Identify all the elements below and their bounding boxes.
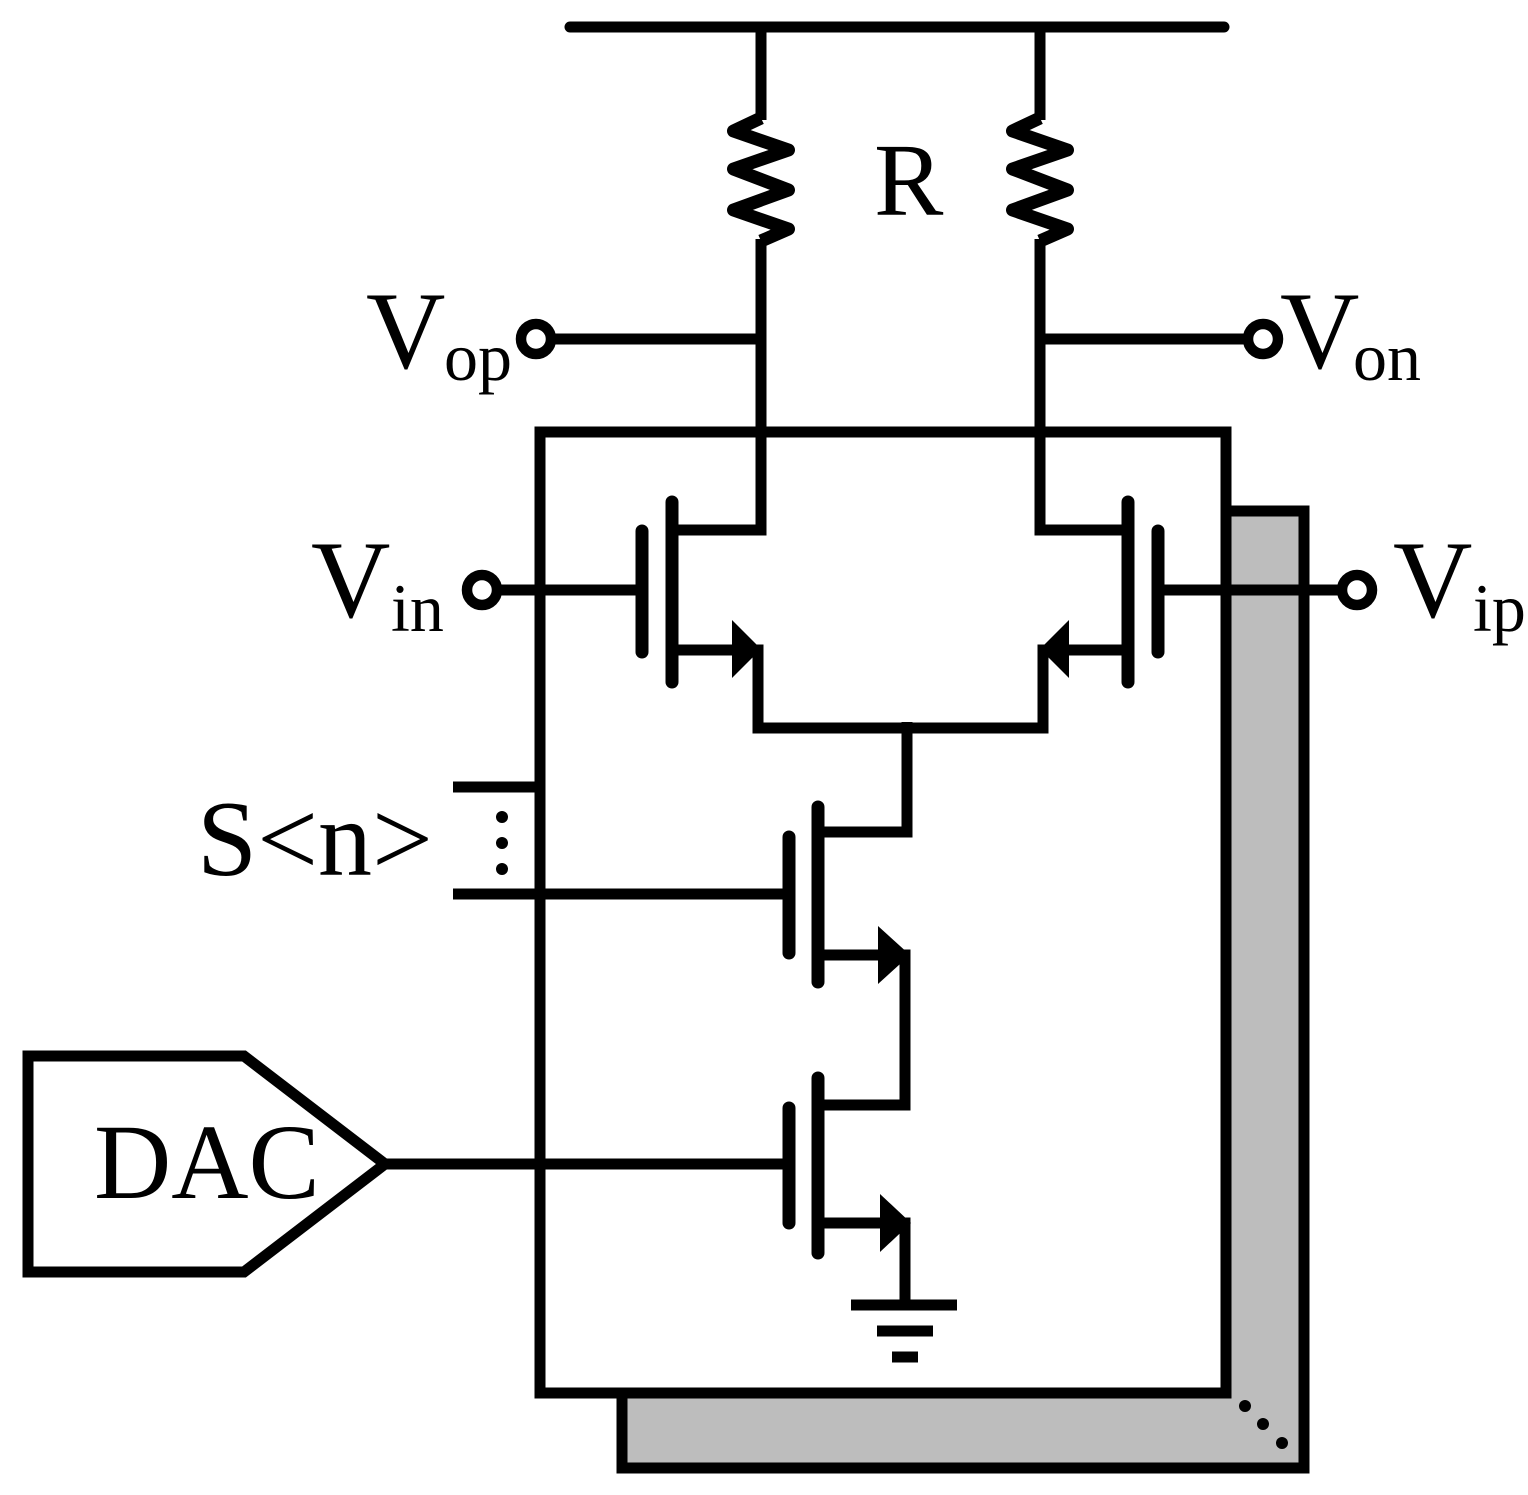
source arrow M3: [878, 926, 910, 984]
wire S<n> to M3 gate: [453, 889, 786, 900]
transistor M4 channel bar: [812, 1078, 825, 1253]
repeated cell shadow box: [622, 511, 1304, 1468]
wire common source node: [672, 650, 1128, 728]
terminal Von: [1248, 324, 1278, 354]
wire M3 source to M4 drain: [818, 955, 905, 1105]
source arrow M1: [732, 620, 761, 678]
svg-text:S<n>: S<n>: [197, 780, 433, 899]
net S<n> top stub: [453, 782, 545, 793]
wire Vin gate: [482, 585, 640, 596]
transistor M1 channel bar: [666, 502, 679, 682]
svg-text:V: V: [311, 519, 390, 641]
wire R1 to M1 drain: [672, 239, 761, 530]
wire rail to R2: [1035, 22, 1046, 120]
transistor M1 gate bar: [636, 531, 649, 652]
ground: [851, 1305, 957, 1357]
svg-text:V: V: [1280, 270, 1359, 392]
svg-text:op: op: [444, 319, 512, 395]
svg-text:V: V: [366, 270, 445, 392]
transistor M3 channel bar: [812, 807, 825, 982]
wire tail to M3 drain: [818, 722, 907, 832]
source arrow M4: [880, 1194, 911, 1252]
wire Von: [1040, 334, 1263, 345]
transistor M3 gate bar: [783, 837, 796, 953]
wire R2 to M2 drain: [1040, 239, 1128, 530]
transistor M2 gate bar: [1152, 531, 1165, 652]
wire rail to R1: [756, 22, 767, 120]
ellipsis dots (repeat indicator): [1239, 1400, 1288, 1449]
svg-text:DAC: DAC: [94, 1104, 320, 1222]
wire M4 source to ground: [818, 1223, 905, 1305]
transistor M4 gate bar: [783, 1108, 796, 1223]
terminal Vip: [1342, 575, 1372, 605]
source arrow M2: [1040, 620, 1069, 678]
wire Vip gate: [1158, 585, 1357, 596]
net S<n> dots: [496, 811, 508, 875]
terminal Vop: [521, 324, 551, 354]
supply rail wire: [570, 22, 1224, 33]
wire Vop: [536, 334, 761, 345]
terminal Vin: [467, 575, 497, 605]
unit cell box: [540, 432, 1226, 1393]
svg-text:on: on: [1353, 319, 1421, 395]
svg-text:V: V: [1393, 519, 1472, 641]
DAC flag: [28, 1056, 385, 1272]
svg-text:in: in: [391, 570, 444, 646]
transistor M2 channel bar: [1122, 502, 1135, 682]
svg-text:R: R: [874, 123, 944, 238]
wire DAC to M4 gate: [385, 1159, 786, 1170]
resistor R1: [734, 118, 789, 241]
svg-text:ip: ip: [1473, 570, 1526, 646]
resistor R2: [1013, 118, 1068, 241]
